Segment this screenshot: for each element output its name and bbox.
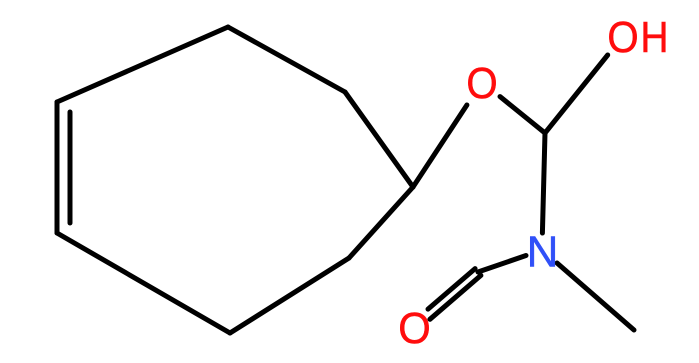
bond O ether-C8 (top O label down-right to CH) (500, 97, 545, 133)
bond ring C3-C2 (apex to upper-left) (57, 27, 228, 102)
bond ring C2=C1 outer line (left vertical double bond) (55, 102, 60, 233)
bond ring C4-C3 (upper kink to apex) (228, 27, 345, 92)
bond N-C9 formyl (N label down-left to carbonyl carbon) (478, 256, 526, 273)
bond ring C1-C7 (lower-left to bottom apex) (57, 233, 230, 333)
bond C9=O carbonyl line 2 (428, 269, 475, 310)
svg-text:N: N (527, 228, 559, 277)
bond C5-O ether (to top O label) (413, 105, 467, 187)
bond C8-N (vertical down to N label) (542, 133, 545, 233)
bond C8-OH (up-right to hydroxyl label) (545, 55, 608, 133)
bond ring C6-C5 (lower kink to ring attachment carbon) (349, 187, 413, 258)
bond ring C5-C4 (ring attachment carbon to upper kink) (345, 92, 413, 187)
svg-text:H: H (640, 13, 668, 62)
bond N-CH3 (N label down-right to methyl) (557, 263, 634, 330)
svg-text:O: O (466, 59, 497, 108)
bond ring C2=C1 inner line (68, 112, 73, 223)
svg-text:O: O (398, 304, 431, 353)
bond C9=O carbonyl line 1 (430, 275, 481, 319)
svg-text:O: O (607, 13, 638, 62)
bond ring C7-C6 (bottom apex to lower kink) (230, 258, 349, 333)
